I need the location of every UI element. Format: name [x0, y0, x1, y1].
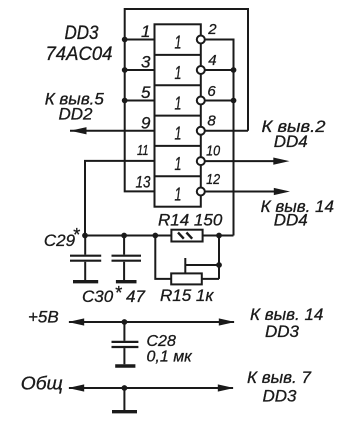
svg-text:11: 11 — [137, 142, 149, 159]
svg-text:4: 4 — [208, 52, 216, 69]
svg-text:DD2: DD2 — [58, 105, 93, 124]
svg-text:C29: C29 — [44, 231, 76, 250]
svg-text:10: 10 — [206, 143, 221, 160]
svg-text:DD4: DD4 — [274, 132, 308, 151]
svg-text:C30: C30 — [82, 287, 114, 306]
svg-text:9: 9 — [141, 113, 151, 132]
svg-text:47: 47 — [126, 287, 145, 306]
svg-text:0,1 мк: 0,1 мк — [147, 349, 194, 366]
svg-text:12: 12 — [206, 171, 221, 188]
svg-text:2: 2 — [207, 21, 217, 38]
svg-text:DD3: DD3 — [65, 23, 99, 44]
svg-text:13: 13 — [136, 173, 151, 192]
svg-text:74AC04: 74AC04 — [46, 44, 113, 65]
svg-text:1: 1 — [175, 184, 182, 204]
svg-text:Общ: Общ — [21, 374, 63, 394]
svg-text:DD3: DD3 — [262, 387, 297, 406]
svg-text:DD4: DD4 — [274, 211, 308, 230]
svg-text:3: 3 — [141, 53, 151, 72]
svg-text:R15 1к: R15 1к — [160, 286, 214, 305]
svg-text:1: 1 — [175, 154, 182, 174]
svg-text:С28: С28 — [147, 333, 176, 350]
svg-text:К выв. 7: К выв. 7 — [247, 368, 311, 387]
svg-text:+5В: +5В — [28, 308, 59, 327]
svg-text:1: 1 — [175, 124, 182, 144]
svg-text:8: 8 — [207, 113, 216, 130]
svg-text:6: 6 — [207, 83, 216, 100]
svg-text:R14 150: R14 150 — [158, 211, 223, 230]
svg-text:1: 1 — [175, 93, 182, 113]
svg-text:*: * — [73, 225, 81, 245]
svg-text:DD3: DD3 — [265, 322, 300, 341]
svg-text:*: * — [115, 283, 123, 303]
svg-text:1: 1 — [175, 32, 182, 52]
svg-text:1: 1 — [141, 22, 150, 41]
svg-text:5: 5 — [141, 83, 151, 102]
svg-text:1: 1 — [175, 63, 182, 83]
